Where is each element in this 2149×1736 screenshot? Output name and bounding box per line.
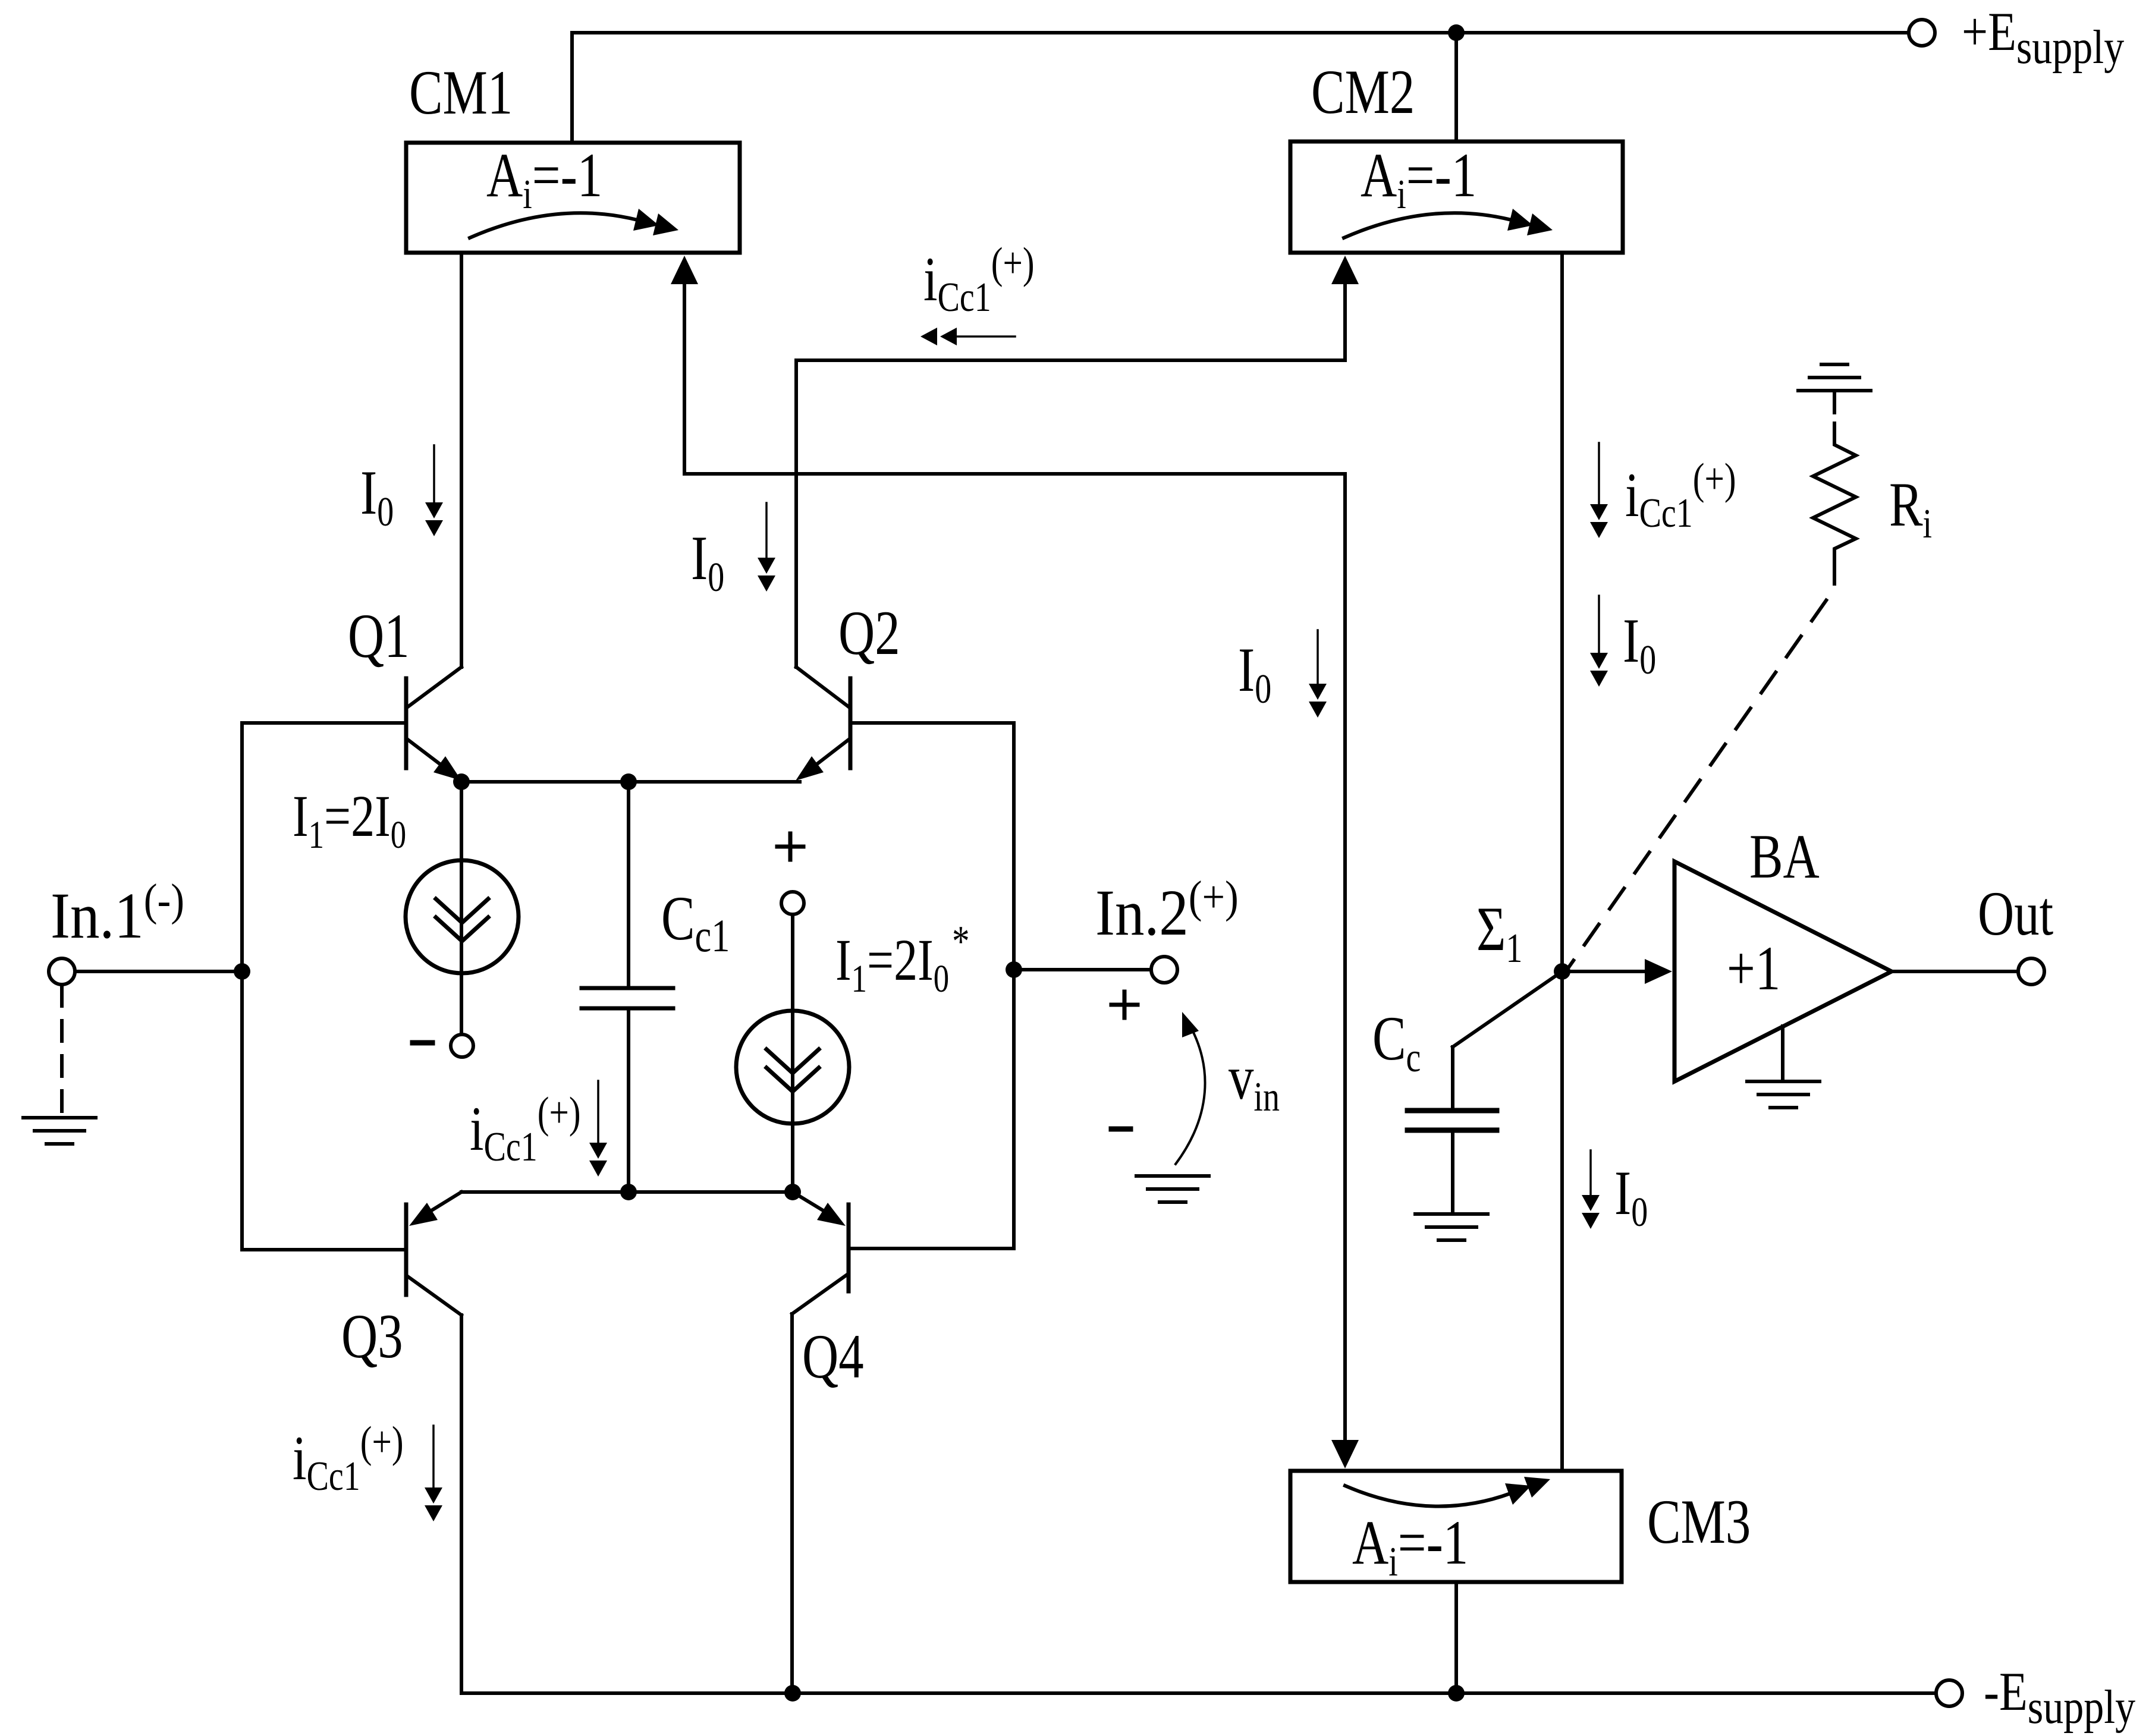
label Q4: [802, 1321, 864, 1391]
svg-text:CM3: CM3: [1647, 1486, 1751, 1556]
label BA: [1749, 821, 1820, 891]
svg-text:-Esupply: -Esupply: [1984, 1662, 2135, 1734]
label In.2(+): [1095, 872, 1239, 949]
label CM3: [1647, 1486, 1751, 1556]
junction CM3 / rail: [1448, 1685, 1465, 1702]
CM2 mirror direction arrow: [1344, 209, 1553, 238]
wire Q4 collector to rail: [790, 1314, 794, 1693]
label I1=2I0*: [835, 917, 970, 1001]
transistor Q1: [242, 667, 461, 781]
current mirror CM3 box: [1290, 1471, 1622, 1582]
label I0 (CM2-CM3 left line): [1238, 634, 1271, 712]
current source I1 (right): [736, 1011, 849, 1124]
junction sigma1: [1554, 963, 1570, 980]
wire into CM1 bottom-right with arrow: [671, 256, 698, 474]
svg-text:Q4: Q4: [802, 1321, 864, 1391]
label I0 (below sigma1): [1614, 1158, 1648, 1235]
label Ri: [1889, 469, 1932, 546]
label iCc1(+) (top middle): [923, 239, 1035, 320]
label - (left source): [413, 1040, 432, 1046]
CM1 gain label Ai=-1: [486, 140, 602, 217]
junction Cc1 bottom tap: [620, 1184, 637, 1200]
terminal In.2: [1151, 957, 1177, 983]
svg-text:Cc1: Cc1: [661, 883, 730, 962]
transistor Q3: [242, 1192, 461, 1315]
buffer amplifier BA: [1674, 861, 1892, 1081]
svg-text:iCc1(+): iCc1(+): [1625, 455, 1736, 536]
label I0 (Q1 branch): [360, 457, 394, 534]
svg-text:In.2(+): In.2(+): [1095, 872, 1239, 949]
transistor Q4: [792, 1192, 1014, 1314]
vin arc arrow: [1176, 1012, 1205, 1164]
junction Cc1 top tap: [620, 773, 637, 790]
wire sigma1 to Cc (diagonal): [1453, 971, 1562, 1047]
label Cc1: [661, 883, 730, 962]
wire CM2 output down through sigma1 to CM3: [1560, 253, 1564, 1471]
label + (vin): [1111, 992, 1138, 1018]
svg-text:Q2: Q2: [838, 597, 900, 668]
ground (vin): [1136, 1176, 1209, 1202]
resistor Ri: [1813, 423, 1856, 556]
wire Q1 emitter node to current source: [460, 782, 463, 1034]
arrow iCc1 (Q3 branch): [425, 1426, 442, 1521]
current mirror CM1 box: [406, 143, 740, 253]
wire emitter node row (Q1-Q2): [461, 780, 800, 784]
junction +E rail / CM2: [1448, 24, 1465, 41]
wire emitter node row (Q3-Q4): [461, 1190, 793, 1194]
wire CM3 to -E rail: [1454, 1582, 1458, 1693]
arrow sigma1 to BA input: [1562, 959, 1672, 984]
terminal -E supply: [1936, 1680, 1962, 1706]
I0 arrow (Q1 branch): [425, 445, 443, 536]
ground (Cc): [1415, 1214, 1488, 1240]
arrow iCc1 (CM2 output branch): [1590, 443, 1608, 538]
wire BA output to Out: [1892, 970, 2018, 973]
label + (right source): [777, 834, 803, 860]
junction Q1 emitter node: [453, 773, 470, 790]
terminal plus of I1 (right): [781, 892, 804, 914]
wire corner to CM2 (horizontal): [796, 358, 1345, 362]
arrow iCc1 (Cc1 branch): [589, 1081, 607, 1177]
label iCc1(+) (Q3 branch): [293, 1418, 404, 1499]
wire +E supply rail: [572, 31, 1908, 34]
label iCc1(+) (CM2 output branch): [1625, 455, 1736, 536]
BA ground stub: [1781, 1026, 1784, 1081]
label sigma1: [1476, 894, 1522, 971]
terminal minus of I1 (left): [451, 1034, 473, 1057]
CM1 mirror direction arrow: [470, 209, 678, 238]
svg-text:CM2: CM2: [1311, 56, 1415, 127]
svg-text:I0: I0: [1238, 634, 1271, 712]
capacitor Cc: [1407, 1047, 1497, 1214]
arrow I0 (CM2 output branch): [1590, 596, 1608, 687]
junction right source to Q4 emitter: [784, 1184, 801, 1200]
wire Q2 collector riser: [794, 360, 798, 667]
svg-text:I0: I0: [360, 457, 394, 534]
ground (In.1): [23, 1118, 96, 1144]
junction In.2 tap: [1006, 961, 1022, 978]
svg-text:iCc1(+): iCc1(+): [293, 1418, 404, 1499]
wire CM1 output to Q1 collector: [460, 253, 463, 667]
svg-text:I1=2I0: I1=2I0: [293, 783, 406, 857]
arrow iCc1 pointing left: [920, 328, 1015, 345]
terminal +E supply: [1909, 20, 1935, 46]
I0 arrow (Q2 branch): [758, 503, 775, 592]
label - (vin): [1111, 1127, 1130, 1132]
svg-text:I0: I0: [691, 523, 724, 600]
label -Esupply: [1984, 1662, 2135, 1734]
arrow I0 (below sigma1): [1582, 1150, 1600, 1229]
svg-text:Ri: Ri: [1889, 469, 1932, 546]
current mirror CM2 box: [1290, 141, 1623, 253]
svg-text:Ai=-1: Ai=-1: [1352, 1507, 1468, 1584]
label Q2: [838, 597, 900, 668]
label Out: [1978, 878, 2053, 948]
junction In.1 tap: [234, 963, 250, 980]
label CM2: [1311, 56, 1415, 127]
label CM1: [409, 57, 513, 127]
ground (Ri, inverted): [1798, 364, 1871, 413]
label Cc: [1372, 1003, 1421, 1080]
arrow I0 (CM2-CM3 left line): [1309, 630, 1327, 718]
svg-text:Q3: Q3: [341, 1301, 403, 1371]
svg-text:Ai=-1: Ai=-1: [486, 140, 602, 217]
capacitor Cc1: [582, 782, 673, 1192]
svg-text:CM1: CM1: [409, 57, 513, 127]
label Q1: [348, 600, 410, 671]
svg-text:Q1: Q1: [348, 600, 410, 671]
junction Q4 collector / rail: [784, 1685, 801, 1702]
label I1=2I0: [293, 783, 406, 857]
label In.1(-): [51, 875, 184, 952]
terminal In.1: [49, 958, 75, 985]
current source I1 (left): [406, 860, 519, 973]
label Q3: [341, 1301, 403, 1371]
wire into CM2 bottom-left with arrow: [1331, 256, 1359, 360]
transistor Q2: [796, 667, 1014, 781]
terminal Out: [2018, 958, 2044, 985]
svg-text:vin: vin: [1229, 1042, 1280, 1119]
svg-text:Σ1: Σ1: [1476, 894, 1522, 971]
svg-text:Ai=-1: Ai=-1: [1361, 140, 1476, 217]
wire node-A horizontal (CM1 to CM3 column): [684, 472, 1345, 476]
svg-text:iCc1(+): iCc1(+): [470, 1089, 581, 1170]
label I0 (Q2 branch): [691, 523, 724, 600]
CM3 gain label Ai=-1: [1352, 1507, 1468, 1584]
wire In.1 lead: [75, 970, 242, 973]
svg-text:+1: +1: [1727, 933, 1780, 1003]
svg-text:+Esupply: +Esupply: [1962, 2, 2124, 74]
ground (BA): [1747, 1081, 1820, 1108]
wire CM1 top to +E rail: [570, 33, 574, 143]
CM3 mirror direction arrow: [1345, 1477, 1550, 1507]
label I0 (CM2 output branch): [1623, 605, 1656, 683]
svg-text:iCc1(+): iCc1(+): [923, 239, 1035, 320]
CM2 gain label Ai=-1: [1361, 140, 1476, 217]
wire Q3 collector to rail: [460, 1315, 463, 1693]
wire plus terminal through current source to node: [791, 914, 794, 1192]
wire down to CM3 with arrow: [1331, 474, 1359, 1468]
label iCc1(+) (Cc1 branch): [470, 1089, 581, 1170]
svg-text:I0: I0: [1614, 1158, 1648, 1235]
dashed wire In.1 to ground: [60, 986, 64, 1115]
wire left vertical (Q1 base to Q3 base): [240, 723, 244, 1250]
dashed wire Ri to sigma1: [1567, 559, 1834, 969]
wire -E supply rail: [461, 1691, 1936, 1695]
label +1: [1727, 933, 1780, 1003]
wire right vertical (Q2 base to Q4 base): [1012, 723, 1016, 1248]
svg-text:Cc: Cc: [1372, 1003, 1421, 1080]
svg-text:In.1(-): In.1(-): [51, 875, 184, 952]
svg-text:I0: I0: [1623, 605, 1656, 683]
label vin: [1229, 1042, 1280, 1119]
label +Esupply: [1962, 2, 2124, 74]
svg-text:BA: BA: [1749, 821, 1820, 891]
svg-text:I1=2I0*: I1=2I0*: [835, 917, 970, 1001]
svg-text:Out: Out: [1978, 878, 2053, 948]
wire CM2 top to +E rail: [1454, 33, 1458, 141]
wire In.2 lead: [1014, 968, 1151, 971]
